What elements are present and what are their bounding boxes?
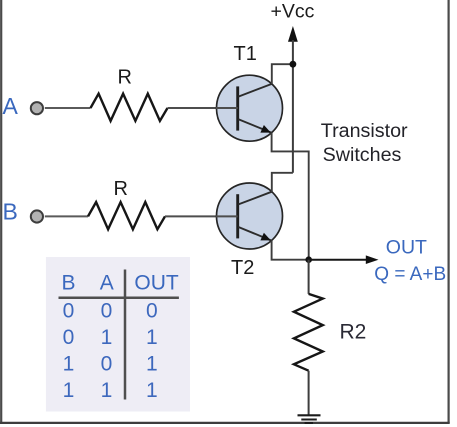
svg-text:Switches: Switches <box>323 144 402 166</box>
output arrow OUT <box>366 255 379 264</box>
wire T2 collector to rail <box>272 173 293 192</box>
svg-text:R: R <box>118 67 132 89</box>
svg-text:Q = A+B: Q = A+B <box>374 264 446 285</box>
svg-text:0: 0 <box>101 352 113 375</box>
wire R2 to ground <box>308 371 310 416</box>
junction OUT node <box>305 256 312 263</box>
svg-text:1: 1 <box>63 352 75 375</box>
svg-text:0: 0 <box>146 299 158 322</box>
svg-text:0: 0 <box>63 326 75 349</box>
svg-text:1: 1 <box>146 326 158 349</box>
svg-text:0: 0 <box>101 299 113 322</box>
svg-text:1: 1 <box>101 379 113 402</box>
resistor R (input B) <box>88 202 165 229</box>
wire OUT node to R2 <box>308 260 310 294</box>
svg-text:OUT: OUT <box>386 237 427 259</box>
svg-text:+Vcc: +Vcc <box>271 1 315 23</box>
wire OUT node to output arrow <box>309 259 367 261</box>
svg-text:1: 1 <box>146 352 158 375</box>
svg-text:1: 1 <box>146 379 158 402</box>
power arrow +Vcc <box>288 26 298 42</box>
svg-text:B: B <box>3 199 18 225</box>
svg-text:R2: R2 <box>340 321 367 344</box>
svg-text:A: A <box>100 272 114 295</box>
svg-text:T1: T1 <box>234 43 257 65</box>
input terminal A <box>31 102 43 114</box>
transistor T1 <box>216 75 283 141</box>
truth table <box>46 257 190 412</box>
svg-text:OUT: OUT <box>134 272 179 295</box>
transistor T2 <box>216 183 283 249</box>
svg-text:Transistor: Transistor <box>321 120 408 142</box>
svg-text:1: 1 <box>63 379 75 402</box>
wire A terminal to R <box>45 107 91 109</box>
wire B terminal to R <box>45 215 88 217</box>
wire R to T1 base <box>168 107 238 109</box>
svg-text:T2: T2 <box>231 257 254 279</box>
svg-text:R: R <box>114 178 128 200</box>
input terminal B <box>31 210 43 222</box>
wire T2 emitter to OUT node <box>272 241 309 260</box>
ground <box>298 415 321 423</box>
wire T1 collector to rail <box>272 64 293 84</box>
wire T1 emitter to OUT node <box>272 133 309 260</box>
svg-text:A: A <box>3 93 19 119</box>
junction T1 collector / Vcc rail <box>290 61 297 68</box>
wire Vcc rail <box>292 40 294 173</box>
svg-text:B: B <box>61 272 75 295</box>
resistor R (input A) <box>91 94 168 121</box>
wire R to T2 base <box>165 215 238 217</box>
svg-text:0: 0 <box>63 299 75 322</box>
resistor R2 <box>294 294 323 371</box>
svg-text:1: 1 <box>101 326 113 349</box>
